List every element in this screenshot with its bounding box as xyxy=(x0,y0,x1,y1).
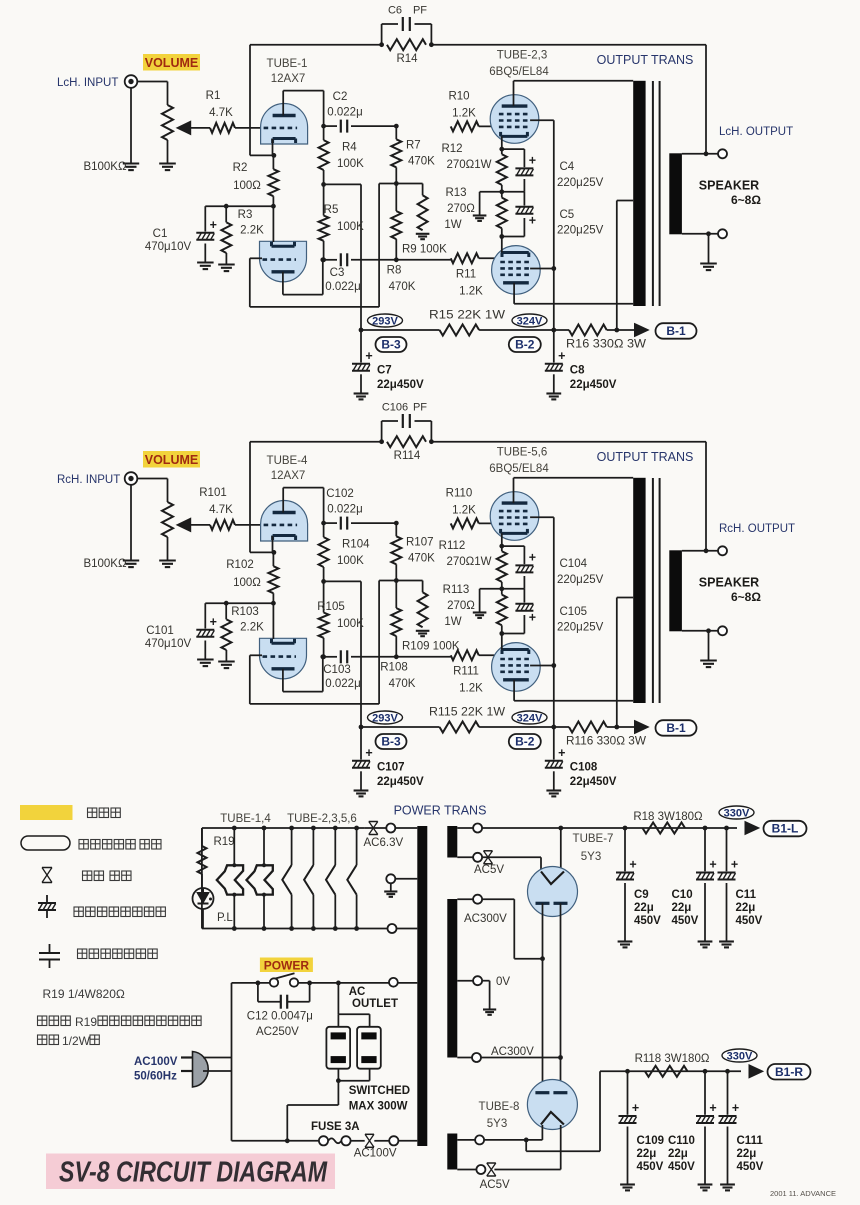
svg-text:450V: 450V xyxy=(736,915,763,927)
svg-text:LcH. OUTPUT: LcH. OUTPUT xyxy=(719,126,793,138)
svg-text:OUTPUT TRANS: OUTPUT TRANS xyxy=(597,450,694,464)
svg-text:R115 22K 1W: R115 22K 1W xyxy=(429,707,505,719)
svg-text:R13: R13 xyxy=(445,187,466,199)
svg-text:MAX 300W: MAX 300W xyxy=(349,1101,408,1113)
svg-text:TUBE-5,6: TUBE-5,6 xyxy=(497,447,548,459)
svg-text:AC300V: AC300V xyxy=(464,913,507,925)
svg-text:R103: R103 xyxy=(231,606,259,618)
svg-text:R104: R104 xyxy=(342,539,370,551)
svg-text:AC100V: AC100V xyxy=(134,1056,178,1068)
svg-text:22μ: 22μ xyxy=(672,902,692,914)
svg-text:4.7K: 4.7K xyxy=(209,107,233,119)
svg-text:330V: 330V xyxy=(727,1051,753,1063)
svg-text:TUBE-7: TUBE-7 xyxy=(573,833,614,845)
svg-text:470K: 470K xyxy=(408,553,435,565)
svg-text:22μ: 22μ xyxy=(637,1148,657,1160)
svg-text:R11: R11 xyxy=(456,269,476,281)
svg-text:AC6.3V: AC6.3V xyxy=(364,837,404,849)
svg-text:5Y3: 5Y3 xyxy=(487,1118,507,1130)
svg-text:220μ25V: 220μ25V xyxy=(557,225,604,237)
svg-text:PF: PF xyxy=(413,402,427,414)
svg-text:R7: R7 xyxy=(406,140,421,152)
svg-text:1W: 1W xyxy=(444,219,461,231)
svg-text:R14: R14 xyxy=(396,53,418,65)
svg-text:TUBE-1,4: TUBE-1,4 xyxy=(220,813,271,825)
svg-text:R4: R4 xyxy=(342,142,357,154)
svg-text:1.2K: 1.2K xyxy=(452,505,476,517)
svg-text:R107: R107 xyxy=(406,537,434,549)
svg-text:B-1: B-1 xyxy=(666,721,686,735)
svg-text:+: + xyxy=(365,746,372,760)
svg-text:270Ω1W: 270Ω1W xyxy=(446,159,491,171)
svg-text:1.2K: 1.2K xyxy=(452,108,476,120)
svg-text:100Ω: 100Ω xyxy=(233,180,261,192)
svg-text:SPEAKER: SPEAKER xyxy=(699,576,759,590)
svg-text:324V: 324V xyxy=(517,316,543,328)
svg-text:220μ25V: 220μ25V xyxy=(557,574,604,586)
svg-text:22μ450V: 22μ450V xyxy=(377,776,424,788)
svg-text:C106: C106 xyxy=(382,402,408,414)
svg-text:+: + xyxy=(365,349,372,363)
svg-text:+: + xyxy=(709,858,716,872)
svg-text:R101: R101 xyxy=(199,487,227,499)
svg-text:R108: R108 xyxy=(380,662,408,674)
svg-text:6BQ5/EL84: 6BQ5/EL84 xyxy=(489,66,549,78)
svg-text:220μ25V: 220μ25V xyxy=(557,622,604,634)
svg-text:R12: R12 xyxy=(441,143,462,155)
svg-text:R111: R111 xyxy=(453,666,479,678)
svg-text:B-1: B-1 xyxy=(666,324,686,338)
svg-text:R15 22K 1W: R15 22K 1W xyxy=(429,310,505,322)
svg-text:C3: C3 xyxy=(330,267,345,279)
svg-text:100K: 100K xyxy=(337,555,364,567)
svg-text:RcH. INPUT: RcH. INPUT xyxy=(57,474,120,486)
svg-text:C109: C109 xyxy=(637,1135,665,1147)
svg-text:270Ω: 270Ω xyxy=(447,600,475,612)
svg-text:FUSE 3A: FUSE 3A xyxy=(311,1121,360,1133)
svg-text:6BQ5/EL84: 6BQ5/EL84 xyxy=(489,463,549,475)
svg-text:SPEAKER: SPEAKER xyxy=(699,179,759,193)
svg-text:22μ: 22μ xyxy=(634,902,654,914)
svg-text:1.2K: 1.2K xyxy=(459,683,483,695)
svg-text:R1: R1 xyxy=(206,90,221,102)
svg-text:+: + xyxy=(210,218,217,232)
svg-text:TUBE-1: TUBE-1 xyxy=(267,58,308,70)
svg-text:100K: 100K xyxy=(337,221,364,233)
svg-text:450V: 450V xyxy=(634,915,661,927)
svg-text:B100KΩ: B100KΩ xyxy=(83,558,127,570)
svg-text:R9 100K: R9 100K xyxy=(402,244,447,256)
svg-text:R19 1/4W820Ω: R19 1/4W820Ω xyxy=(43,987,125,1001)
svg-text:470K: 470K xyxy=(408,156,435,168)
svg-text:P.L: P.L xyxy=(217,912,233,924)
svg-text:R19: R19 xyxy=(75,1015,97,1029)
svg-text:C11: C11 xyxy=(736,889,757,901)
svg-text:12AX7: 12AX7 xyxy=(271,73,306,85)
svg-text:C1: C1 xyxy=(153,228,168,240)
svg-text:OUTLET: OUTLET xyxy=(352,998,398,1010)
svg-text:450V: 450V xyxy=(668,1161,695,1173)
svg-text:22μ450V: 22μ450V xyxy=(570,776,617,788)
svg-text:R116 330Ω 3W: R116 330Ω 3W xyxy=(566,736,646,748)
svg-text:2001 11. ADVANCE: 2001 11. ADVANCE xyxy=(770,1189,836,1198)
svg-text:+: + xyxy=(709,1101,716,1115)
svg-text:AC250V: AC250V xyxy=(256,1026,299,1038)
svg-text:2.2K: 2.2K xyxy=(240,225,264,237)
svg-text:0V: 0V xyxy=(496,976,510,988)
svg-text:220μ25V: 220μ25V xyxy=(557,177,604,189)
svg-text:324V: 324V xyxy=(517,713,543,725)
svg-text:C9: C9 xyxy=(634,889,649,901)
svg-text:B-2: B-2 xyxy=(515,735,535,749)
svg-text:POWER TRANS: POWER TRANS xyxy=(394,804,487,818)
svg-text:RcH. OUTPUT: RcH. OUTPUT xyxy=(719,523,795,535)
svg-text:AC5V: AC5V xyxy=(480,1179,510,1191)
svg-text:AC100V: AC100V xyxy=(354,1148,397,1160)
svg-text:AC300V: AC300V xyxy=(491,1046,534,1058)
svg-text:SV-8 CIRCUIT DIAGRAM: SV-8 CIRCUIT DIAGRAM xyxy=(59,1157,328,1189)
svg-text:AC: AC xyxy=(349,986,366,998)
svg-text:22μ: 22μ xyxy=(668,1148,688,1160)
svg-text:C5: C5 xyxy=(560,209,575,221)
svg-text:270Ω1W: 270Ω1W xyxy=(446,556,491,568)
svg-text:5Y3: 5Y3 xyxy=(581,851,601,863)
svg-text:C6: C6 xyxy=(388,5,402,17)
svg-text:R110: R110 xyxy=(446,488,473,500)
svg-text:TUBE-2,3: TUBE-2,3 xyxy=(497,50,548,62)
svg-text:TUBE-4: TUBE-4 xyxy=(267,455,309,467)
svg-text:TUBE-8: TUBE-8 xyxy=(479,1101,520,1113)
svg-text:B-2: B-2 xyxy=(515,338,535,352)
svg-text:4.7K: 4.7K xyxy=(209,504,233,516)
svg-text:450V: 450V xyxy=(737,1161,764,1173)
svg-text:100K: 100K xyxy=(337,158,364,170)
svg-text:R16 330Ω 3W: R16 330Ω 3W xyxy=(566,339,646,351)
svg-text:450V: 450V xyxy=(672,915,699,927)
svg-text:B1-L: B1-L xyxy=(772,822,799,836)
svg-text:2.2K: 2.2K xyxy=(240,622,264,634)
svg-text:+: + xyxy=(210,615,217,629)
svg-text:50/60Hz: 50/60Hz xyxy=(134,1071,177,1083)
svg-text:6~8Ω: 6~8Ω xyxy=(731,590,761,604)
svg-text:+: + xyxy=(558,349,565,363)
svg-text:B1-R: B1-R xyxy=(775,1065,803,1079)
svg-text:100Ω: 100Ω xyxy=(233,577,261,589)
svg-text:22μ: 22μ xyxy=(736,902,756,914)
svg-text:293V: 293V xyxy=(372,713,398,725)
svg-text:R112: R112 xyxy=(439,540,466,552)
svg-text:C12 0.0047μ: C12 0.0047μ xyxy=(247,1011,313,1023)
svg-text:330V: 330V xyxy=(724,808,750,820)
svg-text:VOLUME: VOLUME xyxy=(145,453,198,467)
svg-text:100K: 100K xyxy=(337,618,364,630)
svg-text:22μ450V: 22μ450V xyxy=(377,379,424,391)
svg-text:B100KΩ: B100KΩ xyxy=(83,161,127,173)
svg-text:470K: 470K xyxy=(389,678,416,690)
svg-text:R2: R2 xyxy=(233,162,248,174)
svg-text:TUBE-2,3,5,6: TUBE-2,3,5,6 xyxy=(287,813,357,825)
svg-text:+: + xyxy=(529,154,536,168)
svg-text:R3: R3 xyxy=(238,209,253,221)
svg-text:R10: R10 xyxy=(448,91,469,103)
svg-text:C101: C101 xyxy=(146,625,174,637)
svg-text:C107: C107 xyxy=(377,762,405,774)
svg-text:+: + xyxy=(632,1101,639,1115)
svg-text:R109 100K: R109 100K xyxy=(402,641,460,653)
svg-text:0.022μ: 0.022μ xyxy=(325,678,360,690)
svg-text:0.022μ: 0.022μ xyxy=(327,107,362,119)
svg-text:R102: R102 xyxy=(226,559,254,571)
svg-text:R105: R105 xyxy=(317,601,345,613)
svg-text:VOLUME: VOLUME xyxy=(145,56,198,70)
svg-text:R5: R5 xyxy=(324,204,339,216)
svg-text:C103: C103 xyxy=(323,664,351,676)
svg-text:C105: C105 xyxy=(560,606,588,618)
svg-text:C111: C111 xyxy=(737,1135,764,1147)
svg-text:PF: PF xyxy=(413,5,427,17)
svg-text:+: + xyxy=(558,746,565,760)
svg-text:22μ: 22μ xyxy=(737,1148,757,1160)
svg-text:450V: 450V xyxy=(637,1161,664,1173)
svg-text:C4: C4 xyxy=(560,161,575,173)
svg-text:1W: 1W xyxy=(444,616,461,628)
svg-text:22μ450V: 22μ450V xyxy=(570,379,617,391)
svg-text:12AX7: 12AX7 xyxy=(271,470,306,482)
svg-text:+: + xyxy=(629,858,636,872)
svg-text:R114: R114 xyxy=(394,450,421,462)
svg-text:470μ10V: 470μ10V xyxy=(145,241,192,253)
svg-text:0.022μ: 0.022μ xyxy=(325,281,360,293)
svg-text:R113: R113 xyxy=(443,584,470,596)
svg-text:+: + xyxy=(529,551,536,565)
svg-text:C8: C8 xyxy=(570,365,585,377)
svg-text:R8: R8 xyxy=(387,265,402,277)
svg-text:270Ω: 270Ω xyxy=(447,203,475,215)
svg-text:1.2K: 1.2K xyxy=(459,286,483,298)
svg-text:LcH. INPUT: LcH. INPUT xyxy=(57,77,118,89)
svg-text:+: + xyxy=(731,858,738,872)
svg-text:C10: C10 xyxy=(672,889,693,901)
svg-text:POWER: POWER xyxy=(264,959,310,973)
svg-text:C110: C110 xyxy=(668,1135,695,1147)
svg-text:0.022μ: 0.022μ xyxy=(327,504,362,516)
svg-text:R19: R19 xyxy=(213,836,234,848)
svg-text:+: + xyxy=(732,1101,739,1115)
svg-text:B-3: B-3 xyxy=(381,735,401,749)
svg-text:C108: C108 xyxy=(570,762,598,774)
svg-text:C102: C102 xyxy=(326,488,354,500)
svg-text:+: + xyxy=(529,611,536,625)
svg-text:AC5V: AC5V xyxy=(474,864,504,876)
svg-text:+: + xyxy=(529,214,536,228)
svg-text:1/2W: 1/2W xyxy=(62,1034,91,1048)
svg-text:470μ10V: 470μ10V xyxy=(145,638,192,650)
svg-text:C2: C2 xyxy=(333,91,348,103)
svg-text:SWITCHED: SWITCHED xyxy=(349,1085,410,1097)
svg-text:C104: C104 xyxy=(560,558,588,570)
svg-text:B-3: B-3 xyxy=(381,338,401,352)
svg-text:C7: C7 xyxy=(377,365,392,377)
svg-text:470K: 470K xyxy=(389,281,416,293)
svg-text:OUTPUT TRANS: OUTPUT TRANS xyxy=(597,53,694,67)
svg-text:6~8Ω: 6~8Ω xyxy=(731,193,761,207)
svg-text:R18 3W180Ω: R18 3W180Ω xyxy=(633,811,703,823)
svg-text:R118 3W180Ω: R118 3W180Ω xyxy=(635,1053,710,1065)
svg-text:293V: 293V xyxy=(372,316,398,328)
